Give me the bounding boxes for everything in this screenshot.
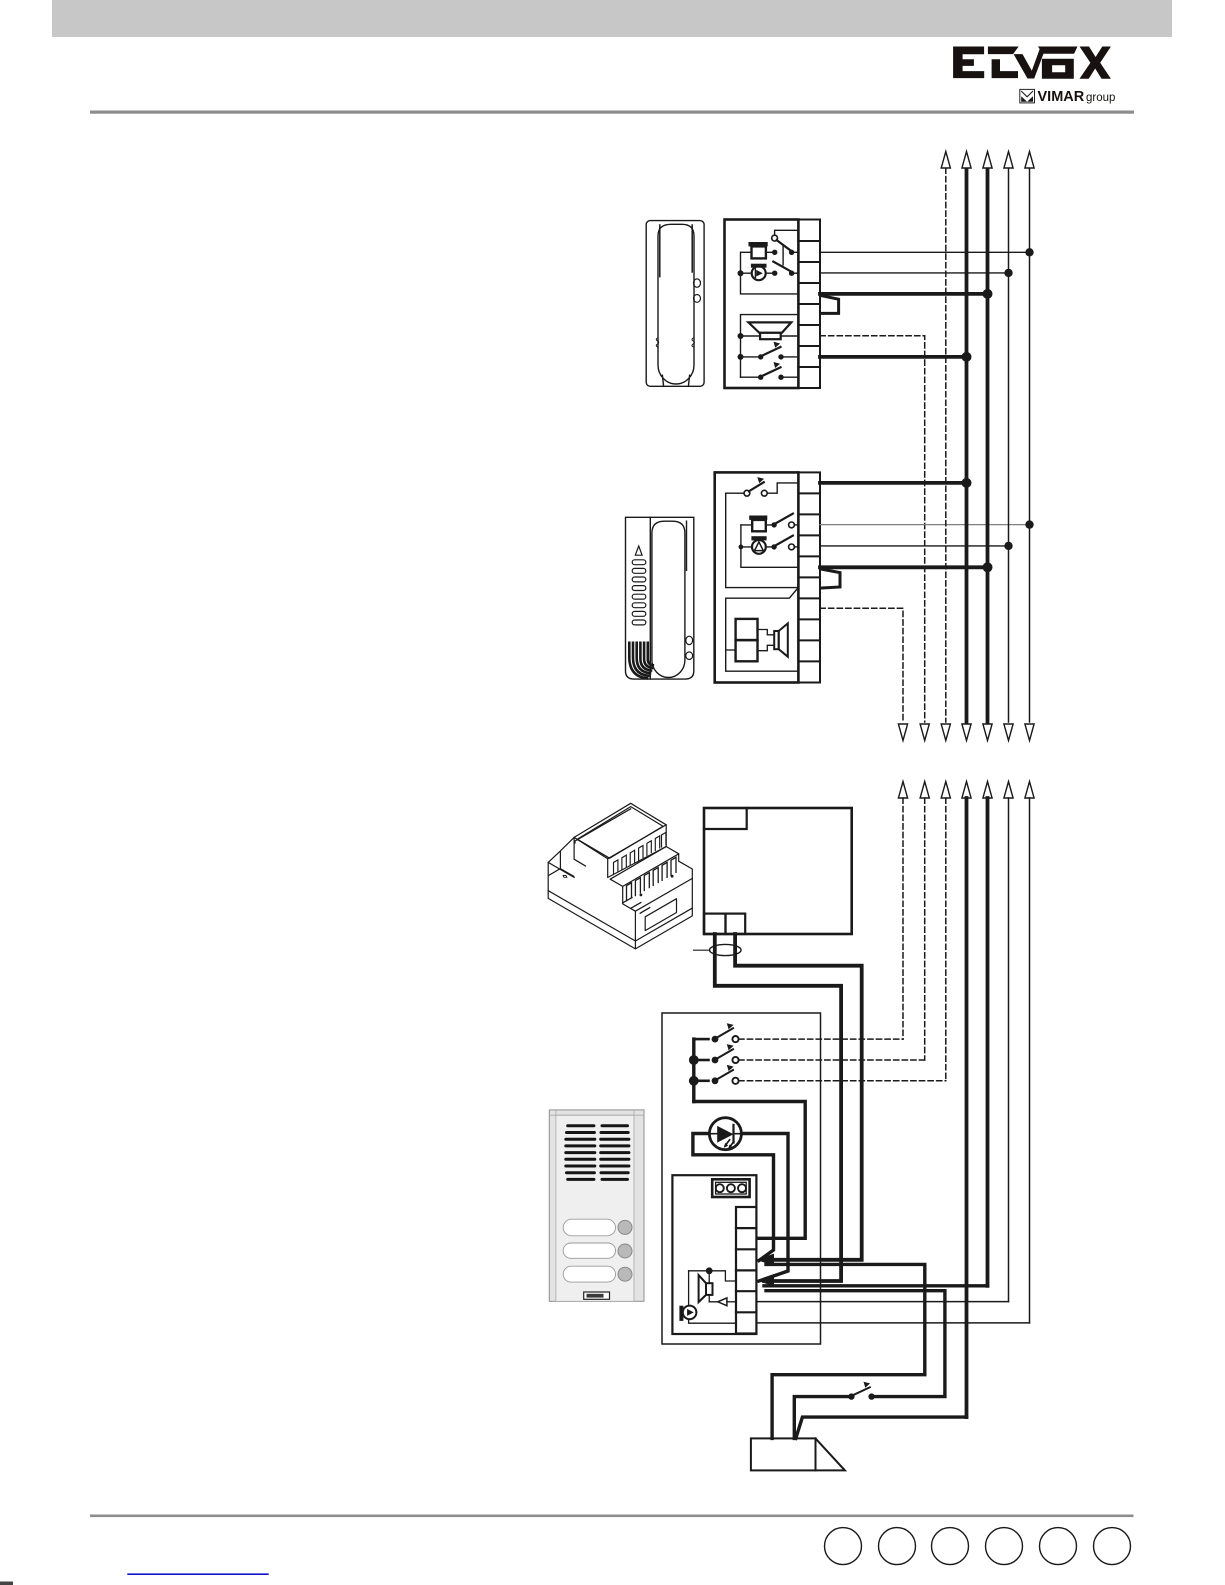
wire r6 dashed	[820, 336, 925, 722]
changeover switch SW1	[772, 230, 799, 255]
junction	[689, 1055, 699, 1065]
junction	[1004, 542, 1012, 550]
riser bus 5 thin	[1029, 168, 1031, 722]
power supply 3D drawing	[548, 803, 692, 949]
wire r7 dashed	[820, 608, 903, 722]
panel buttons	[618, 1220, 632, 1281]
row3 converge arrowhead	[756, 1254, 774, 1266]
unit speaker circuit	[689, 1267, 736, 1306]
interphone 1 (wall phone drawing)	[646, 221, 704, 387]
power supply schematic box	[704, 808, 852, 934]
riser bus 1 dashed lower	[902, 798, 904, 1039]
sounder S4 (circle)	[739, 536, 775, 554]
grille curves	[629, 643, 653, 679]
row4 wire from bus B	[764, 1284, 988, 1287]
call switch 1	[697, 1023, 739, 1042]
wire r7 to bus2 (thick)	[820, 355, 967, 359]
terminal jumper hook	[821, 569, 840, 588]
row3 wire to lock	[766, 1264, 925, 1438]
riser bus thick lower A	[965, 798, 969, 1417]
riser bus thin lower D	[1029, 798, 1031, 1323]
footer rule	[90, 1515, 1134, 1518]
speaker SP1	[748, 322, 791, 332]
lock striker	[751, 1438, 845, 1470]
corner mark	[0, 1582, 13, 1585]
riser continuation arrows (up)	[898, 782, 1034, 799]
junction	[1025, 248, 1033, 256]
hook switch A	[738, 342, 799, 360]
sounder S2 (circle)	[738, 264, 775, 281]
row5 wire to bus C	[756, 1301, 1008, 1303]
row4 converge arrowhead	[756, 1274, 774, 1286]
hook clips	[686, 636, 693, 644]
junction	[738, 333, 744, 339]
bus A wire to lock	[796, 1417, 967, 1438]
wire r4 to bus4	[820, 545, 1009, 547]
unit terminal block	[736, 1207, 756, 1334]
buzzer common wire	[741, 252, 799, 294]
mic/speaker unit	[736, 619, 758, 661]
riser bus 3 dashed lower	[945, 798, 947, 1081]
psu wire right to row3	[735, 934, 862, 1260]
sounder common wire	[741, 525, 799, 567]
row4 wire to lock switch	[766, 1291, 945, 1397]
psu wire left to row4	[715, 934, 841, 1281]
output terminal 1	[704, 914, 726, 934]
sounder S1 (square)	[741, 242, 775, 258]
speaker row wire	[741, 335, 799, 337]
mains notch	[704, 808, 747, 829]
riser bus 3 thick	[986, 168, 990, 722]
wire r1 to bus2 (thick)	[820, 481, 967, 485]
junction	[983, 289, 993, 299]
header band	[52, 0, 1172, 37]
panel name plates	[563, 1219, 615, 1282]
footer circles	[825, 1528, 1131, 1565]
wire r5 to bus3 (thick)	[820, 565, 988, 569]
row6 wire to bus D	[756, 1322, 1029, 1324]
junction	[962, 478, 972, 488]
junction	[1004, 269, 1012, 277]
bottom arrows	[898, 724, 1034, 741]
speaker loop top wire	[741, 315, 799, 378]
junction	[1025, 520, 1033, 528]
junction	[983, 562, 993, 572]
interphone 2 (door phone drawing)	[626, 517, 694, 679]
riser bus 1 dashed	[945, 168, 947, 722]
privacy switch	[726, 477, 799, 587]
handset hook clips	[694, 279, 701, 287]
psu vent fins row 1	[614, 832, 666, 874]
call switch 2	[697, 1044, 739, 1063]
wire r3 to bus4	[820, 272, 1009, 274]
junction	[689, 1076, 699, 1086]
interphone 1 schematic box	[725, 220, 799, 389]
dashed wire switch2	[739, 1059, 925, 1061]
wire r3 to bus5 (gray)	[820, 524, 1030, 526]
cradle squiggles	[656, 338, 659, 347]
speaker unit outer box	[662, 1013, 821, 1344]
cord lines	[662, 375, 663, 386]
ferrite ring	[710, 944, 742, 955]
riser bus 4 thin	[1008, 168, 1010, 722]
sounder S3 (square)	[741, 516, 774, 532]
VIMAR group mark	[1020, 89, 1116, 105]
LED D1	[709, 1118, 741, 1150]
top arrows	[941, 152, 1034, 169]
panel label	[584, 1292, 610, 1299]
interphone 2 schematic box	[715, 472, 799, 682]
hook switch B	[741, 362, 799, 380]
changeover switch SW2	[772, 262, 798, 276]
speaker unit box	[726, 588, 799, 671]
speaker coil	[760, 333, 781, 339]
svg-text:VIMAR: VIMAR	[1038, 89, 1085, 105]
volume triangle	[635, 546, 642, 555]
footer link line	[127, 1573, 268, 1575]
psu vent comb lower	[623, 898, 650, 914]
wire r2 to bus5	[820, 251, 1030, 253]
ELVOX logo	[953, 46, 1111, 78]
svg-text:group: group	[1086, 92, 1115, 104]
call tone slots	[632, 560, 646, 625]
door panel drawing	[549, 1110, 644, 1301]
interphone 2 terminal block	[798, 472, 820, 682]
LED wires	[693, 1134, 774, 1261]
riser bus thin lower C	[1008, 798, 1010, 1302]
switch bus	[692, 1039, 695, 1101]
amplifier sub-box	[672, 1175, 756, 1334]
switch bus to row2	[694, 1102, 805, 1239]
junction	[962, 352, 972, 362]
interphone 1 terminal block	[798, 220, 820, 389]
panel speaker grille	[564, 1124, 630, 1181]
terminal jumper hook	[821, 296, 839, 314]
riser bus 2 dashed lower	[924, 798, 926, 1060]
riser bus thick lower B	[986, 798, 990, 1286]
dashed wire switch1	[739, 1038, 903, 1040]
psu vent fins row 2	[627, 857, 677, 900]
switch SW4	[771, 536, 798, 550]
wire r4 to bus3 (thick)	[820, 292, 988, 296]
jumper connector	[712, 1179, 749, 1197]
switch SW3	[771, 514, 798, 528]
lock release switch	[794, 1382, 875, 1439]
call switch 3	[697, 1065, 739, 1084]
unit microphone	[679, 1306, 736, 1324]
header rule	[90, 111, 1134, 114]
dashed wire switch3	[739, 1080, 946, 1082]
riser bus 2 thick	[965, 168, 969, 722]
switch link	[782, 246, 784, 265]
output terminal 2	[726, 914, 746, 934]
